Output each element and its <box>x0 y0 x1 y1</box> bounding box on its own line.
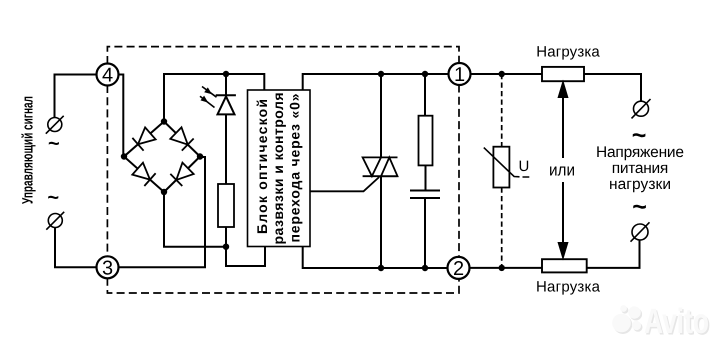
wire: triac gate to block <box>310 177 379 191</box>
load box bottom <box>542 259 587 272</box>
Avito watermark logo <box>614 307 643 334</box>
wire: triac vertical bottom <box>380 176 382 268</box>
diode VD2 (top-right) <box>170 127 194 151</box>
svg-text:~: ~ <box>48 133 60 155</box>
wire: bridge top node up and top rail to block pin 1 <box>164 74 264 122</box>
photodiode / LED <box>216 95 236 114</box>
optocoupler block U1 <box>248 90 311 247</box>
wire: R2 to capacitor <box>425 165 427 190</box>
resistor R1 <box>218 184 234 227</box>
svg-text:питания: питания <box>612 160 669 177</box>
bridge node dots <box>121 118 203 195</box>
SSR enclosure dashed box <box>107 47 459 293</box>
terminal 4 <box>97 64 119 87</box>
wire: capacitor to bottom rail <box>424 198 426 268</box>
svg-text:2: 2 <box>453 258 464 280</box>
wire: node to block bottom-left pin <box>226 247 265 267</box>
node: snubber top <box>422 71 428 77</box>
diode VD1 (top-left) <box>132 127 156 151</box>
wire: terminal 1 to load box top <box>470 73 542 75</box>
svg-text:Напряжение: Напряжение <box>596 144 684 161</box>
wire: bridge bottom node to LED chain node <box>164 192 226 247</box>
triac VS1 <box>363 157 398 176</box>
wire: LED to resistor R1 <box>225 114 227 184</box>
svg-text:4: 4 <box>102 65 113 87</box>
input terminal bottom (screw) <box>46 212 64 230</box>
svg-text:~: ~ <box>632 193 647 221</box>
svg-text:Нагрузка: Нагрузка <box>536 278 601 295</box>
wire: R1 to bottom node <box>225 227 227 247</box>
resistor R2 (snubber) <box>419 116 433 166</box>
output terminal top (screw) <box>632 99 651 118</box>
diode VD3 (bottom-left) <box>132 162 156 186</box>
load box top <box>542 67 584 81</box>
diode VD4 (bottom-right) <box>170 162 194 186</box>
node: varistor bottom <box>499 265 505 271</box>
svg-text:развязки и контроля: развязки и контроля <box>270 93 286 245</box>
wire: bottom input to terminal 3 <box>55 228 97 268</box>
svg-text:~: ~ <box>47 187 59 209</box>
svg-text:Avito: Avito <box>644 302 709 341</box>
wire: snubber top <box>424 74 426 116</box>
LED light arrows <box>200 87 217 108</box>
node: LED branch top <box>223 71 229 77</box>
wire: bottom terminal to load box bottom <box>587 240 640 268</box>
wire: terminal 3 to bridge right node <box>118 157 205 267</box>
svg-text:U: U <box>519 158 530 175</box>
wire: top input to terminal 4 <box>55 75 98 118</box>
wire: terminal 2 to load box bottom <box>469 267 542 269</box>
wire: block top-right pin to rail and to terminal 1 <box>303 74 449 90</box>
svg-text:нагрузки: нагрузки <box>609 176 671 193</box>
node: snubber bottom <box>422 265 428 271</box>
svg-text:Управляющий сигнал: Управляющий сигнал <box>20 96 37 204</box>
wire: triac vertical top <box>380 74 382 157</box>
capacitor C1 <box>410 191 440 199</box>
varistor branch dashed wires <box>501 74 503 268</box>
input terminal top (screw) <box>46 116 64 134</box>
varistor diagonal <box>484 148 530 177</box>
terminal 3 <box>97 256 119 279</box>
node: varistor top <box>499 71 505 77</box>
node: bottom of LED chain <box>223 244 229 250</box>
wire: block bottom-right pin to bottom rail to terminal 2 <box>303 247 448 269</box>
svg-text:или: или <box>549 161 575 180</box>
wire: load box top to right terminal <box>584 74 641 101</box>
svg-text:Нагрузка: Нагрузка <box>536 43 600 60</box>
svg-text:3: 3 <box>102 257 113 279</box>
diode bridge edges <box>124 122 200 193</box>
svg-text:1: 1 <box>454 64 465 86</box>
node: triac top <box>378 71 384 77</box>
output terminal bottom (screw) <box>631 222 650 241</box>
terminal 2 <box>448 257 470 280</box>
or-arrow (или) double arrow <box>559 83 567 257</box>
svg-text:перехода через «0»: перехода через «0» <box>287 93 303 242</box>
varistor RU <box>493 147 509 188</box>
node: triac bottom <box>378 265 384 271</box>
wire: LED branch down <box>225 74 227 95</box>
wire: terminal 4 to bridge left node <box>118 75 123 157</box>
terminal 1 <box>449 63 471 86</box>
svg-text:Блок оптической: Блок оптической <box>254 99 270 234</box>
